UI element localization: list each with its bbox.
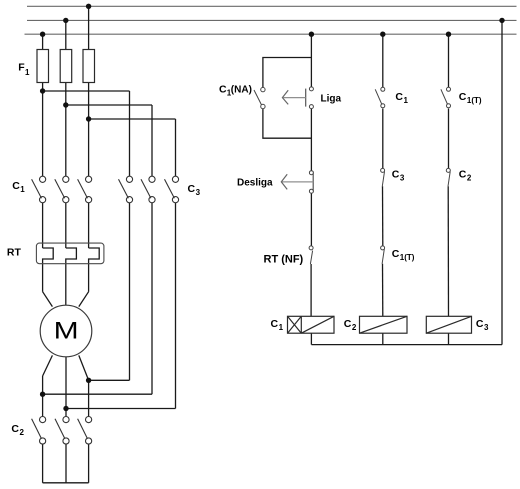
svg-text:1(T): 1(T) bbox=[467, 96, 482, 105]
svg-text:Desliga: Desliga bbox=[237, 178, 273, 189]
svg-text:C: C bbox=[476, 318, 484, 330]
svg-text:C: C bbox=[459, 169, 467, 181]
svg-text:3: 3 bbox=[400, 174, 405, 183]
svg-text:3: 3 bbox=[484, 323, 489, 332]
svg-text:2: 2 bbox=[20, 428, 25, 437]
svg-text:2: 2 bbox=[352, 323, 357, 332]
svg-text:1(T): 1(T) bbox=[400, 253, 415, 262]
svg-text:3: 3 bbox=[196, 188, 201, 197]
svg-text:C: C bbox=[395, 91, 403, 103]
svg-text:M: M bbox=[54, 317, 79, 344]
svg-text:2: 2 bbox=[467, 174, 472, 183]
svg-text:1: 1 bbox=[404, 96, 409, 105]
svg-text:Liga: Liga bbox=[321, 93, 342, 104]
svg-text:C: C bbox=[11, 423, 19, 435]
svg-text:1: 1 bbox=[25, 68, 30, 77]
svg-text:RT (NF): RT (NF) bbox=[264, 254, 304, 266]
svg-text:1: 1 bbox=[20, 185, 25, 194]
svg-text:C: C bbox=[392, 169, 400, 181]
svg-text:1: 1 bbox=[279, 323, 284, 332]
svg-text:C: C bbox=[219, 84, 227, 96]
svg-text:C: C bbox=[344, 318, 352, 330]
svg-text:C: C bbox=[271, 318, 279, 330]
svg-text:C: C bbox=[459, 91, 467, 103]
svg-text:C: C bbox=[188, 183, 196, 195]
svg-text:C: C bbox=[392, 248, 400, 260]
svg-text:(NA): (NA) bbox=[231, 85, 252, 96]
svg-text:C: C bbox=[12, 180, 20, 192]
svg-text:RT: RT bbox=[7, 247, 22, 259]
